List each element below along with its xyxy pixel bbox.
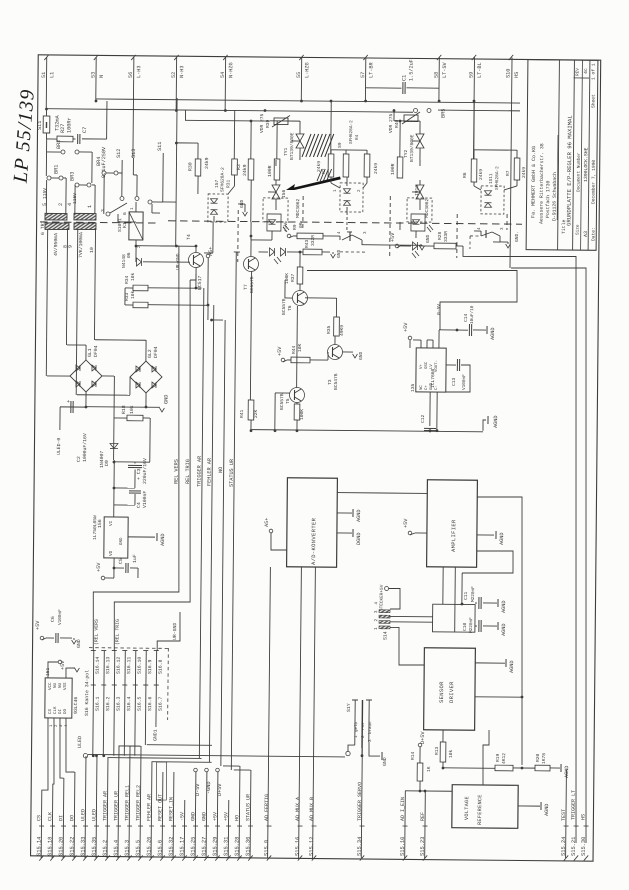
svg-text:GND: GND <box>382 757 388 766</box>
svg-text:S15.21: S15.21 <box>571 837 577 856</box>
jumper BR1 <box>47 176 51 180</box>
varistor VDR 275 R39 <box>270 120 300 122</box>
ULED node circle <box>83 753 87 757</box>
+5V supply R9 <box>287 234 291 238</box>
connector pin 58 LT-SV <box>438 57 440 100</box>
svg-text:NU: NU <box>54 682 58 688</box>
wire opto157 output to T4 <box>212 222 214 253</box>
svg-text:Postfach 1730: Postfach 1730 <box>545 180 551 218</box>
svg-text:CLK: CLK <box>54 706 58 714</box>
svg-text:24k9: 24k9 <box>478 169 484 180</box>
svg-text:10K: 10K <box>297 343 303 352</box>
svg-text:GND: GND <box>201 812 207 821</box>
connector pin S15.8 AD FERTIG <box>268 567 271 858</box>
isolation dashed branches <box>237 210 239 262</box>
svg-text:ULED-0: ULED-0 <box>56 438 62 455</box>
svg-text:S16.14: S16.14 <box>95 657 101 674</box>
svg-text:VCC: VCC <box>49 682 53 690</box>
svg-text:S15.14: S15.14 <box>36 837 42 856</box>
svg-text:CS: CS <box>49 708 53 714</box>
svg-text:LT-BL: LT-BL <box>477 62 483 78</box>
connector pin 51 L1 <box>45 57 47 108</box>
svg-text:SFH628A-2: SFH628A-2 <box>349 120 354 144</box>
wire amplifier right top <box>474 497 524 765</box>
dashed outline S16 right <box>167 648 170 720</box>
wire REL VERS bus <box>93 245 182 652</box>
svg-text:C10: C10 <box>462 622 468 631</box>
svg-text:GND: GND <box>430 382 434 390</box>
analog ground amplifier <box>477 534 494 536</box>
svg-text:54: 54 <box>220 72 226 78</box>
wire FEHLER AR horizontal <box>151 761 211 764</box>
svg-text:R7: R7 <box>505 170 511 176</box>
varistor VDR 275 R40 <box>419 121 421 131</box>
svg-text:7VK/100mA: 7VK/100mA <box>78 232 84 258</box>
svg-text:RESET_IN: RESET_IN <box>168 797 174 821</box>
ground GND T3 <box>343 351 353 353</box>
svg-text:NU: NU <box>59 682 63 688</box>
svg-text:56: 56 <box>128 72 134 78</box>
svg-text:R18: R18 <box>121 405 127 414</box>
svg-text:0K: 0K <box>298 222 304 228</box>
connector pin S15.29 +5V <box>216 772 219 858</box>
svg-text:220uF/16V: 220uF/16V <box>142 458 148 484</box>
svg-text:S10: S10 <box>506 69 512 78</box>
svg-text:S15.16: S15.16 <box>295 837 301 856</box>
IC 135 ICL7660 <box>416 348 446 392</box>
optocoupler I56 MOC3062 <box>263 198 288 222</box>
supply marks bottom <box>194 768 198 772</box>
svg-text:AD I_EIN: AD I_EIN <box>400 797 406 821</box>
svg-text:AGND: AGND <box>493 416 499 429</box>
resistor R18 10k <box>113 376 116 460</box>
connector pin S10 HS <box>510 57 512 267</box>
svg-text:1 of 1: 1 of 1 <box>591 63 597 80</box>
ground A/D pin2 <box>337 532 352 534</box>
svg-text:R35: R35 <box>326 325 332 334</box>
svg-text:AMPLIFIER: AMPLIFIER <box>451 519 457 552</box>
svg-text:24k9: 24k9 <box>316 161 322 172</box>
connector pin S15.5 TRIGGER REL2 <box>140 746 141 858</box>
svg-text:ULED: ULED <box>91 809 97 821</box>
wire STATUS UR horizontal <box>234 769 251 771</box>
svg-text:S15.25: S15.25 <box>190 837 196 856</box>
+5V supply A5+ <box>206 254 210 258</box>
svg-text:REV: REV <box>576 68 581 76</box>
svg-text:AGND: AGND <box>501 601 507 614</box>
wire UR-GND <box>157 612 180 651</box>
wire HS route <box>505 267 591 843</box>
svg-text:REF: REF <box>420 812 426 821</box>
capacitor C10 M220nF <box>478 620 480 632</box>
svg-text:BC557B: BC557B <box>281 298 287 315</box>
svg-text:C+: C+ <box>425 385 429 390</box>
connector pin S15.24 TEST <box>565 770 568 858</box>
svg-text:ULED: ULED <box>80 809 86 821</box>
svg-text:C7: C7 <box>82 127 88 133</box>
wire transformer to GL2 <box>76 229 78 394</box>
connector pin S15.17 -5V <box>183 800 186 858</box>
svg-text:BC557B: BC557B <box>279 393 285 410</box>
opto I56 input box <box>267 214 281 231</box>
svg-text:L1: L1 <box>49 72 55 78</box>
resistor R44 10K <box>281 358 285 362</box>
svg-text:C11: C11 <box>463 591 469 600</box>
wire HO horizontal <box>223 765 239 767</box>
svg-text:L-HZG: L-HZG <box>304 62 310 78</box>
pin pair S16.2 S16.13 <box>103 651 104 756</box>
transistor T4 BC517 <box>188 252 203 267</box>
svg-text:SI1: SI1 <box>37 121 43 130</box>
wire ULED horizontal <box>88 754 345 756</box>
svg-text:REFERENCE: REFERENCE <box>477 794 483 825</box>
svg-text:DF04: DF04 <box>93 345 99 357</box>
svg-text:VOLTAGE: VOLTAGE <box>464 796 470 820</box>
svg-text:NC: NC <box>420 385 424 390</box>
transistor T3 BC547B <box>327 344 342 359</box>
wire sensor driver right <box>475 696 522 698</box>
svg-text:ULED: ULED <box>77 736 83 748</box>
svg-text:S15.33: S15.33 <box>80 837 86 856</box>
svg-text:A/D-KONVERTER: A/D-KONVERTER <box>311 517 317 565</box>
svg-text:22K: 22K <box>253 409 259 418</box>
svg-text:100R: 100R <box>390 163 396 175</box>
resistor 24k9 right of S9 <box>366 150 368 154</box>
title block divider company/title <box>558 60 560 250</box>
capacitor C7 0.1uF/250V <box>77 134 79 144</box>
svg-text:S16.13: S16.13 <box>105 657 111 674</box>
wire ICL7660 top pins <box>420 340 422 348</box>
svg-text:V100nF: V100nF <box>58 609 63 625</box>
svg-text:+5V: +5V <box>35 620 41 630</box>
svg-text:VDR 275: VDR 275 <box>259 113 265 133</box>
connector pin S15.31 +5V <box>227 800 230 858</box>
svg-text:UR-GND: UR-GND <box>172 623 178 640</box>
svg-text:S9: S9 <box>337 142 343 148</box>
svg-text:I56: I56 <box>281 189 287 198</box>
resistor R4 24k9 <box>345 150 347 154</box>
svg-text:GL1: GL1 <box>87 348 93 357</box>
title block divider size/date <box>588 60 590 250</box>
wire block to sensor driver <box>461 573 463 604</box>
svg-text:AD MUX_B: AD MUX_B <box>309 797 315 821</box>
svg-text:+5V: +5V <box>60 660 66 670</box>
ground GND rail end <box>483 420 486 431</box>
svg-text:1: 1 <box>87 205 93 208</box>
svg-text:AD MUX_A: AD MUX_A <box>295 797 301 821</box>
svg-text:S15.32: S15.32 <box>168 837 174 856</box>
bridge rectifier GL1 DF04 <box>70 360 102 392</box>
svg-text:REL TRIG: REL TRIG <box>185 459 191 484</box>
svg-text:100Rr: 100Rr <box>66 117 72 133</box>
svg-text:C1: C1 <box>402 75 408 81</box>
connector pin S15.14 CS <box>40 790 43 858</box>
connector pin S15.33 ULED <box>84 756 87 858</box>
svg-text:S16.5: S16.5 <box>137 696 143 711</box>
svg-text:115V: 115V <box>72 193 78 204</box>
connector pin 55 L-HZG <box>300 57 302 100</box>
resistor R35 49K9 <box>305 297 336 299</box>
wire S14 pin1 +5V loop <box>385 586 389 590</box>
pin pair S16.6 S16.9 <box>144 651 147 745</box>
svg-text:5: 5 <box>42 203 48 206</box>
box C10/C11 filter block <box>432 604 475 632</box>
svg-text:N-H3: N-H3 <box>179 65 185 78</box>
+5V supply C6 <box>40 636 44 640</box>
svg-text:135: 135 <box>410 383 416 392</box>
svg-text:S16.10: S16.10 <box>137 657 143 674</box>
svg-text:AGND: AGND <box>160 534 166 547</box>
analog ground voltage ref <box>518 805 540 807</box>
svg-text:S15.2: S15.2 <box>102 840 108 856</box>
svg-text:V100nF: V100nF <box>142 491 148 508</box>
connector pin 52 N-H3 <box>175 57 178 110</box>
connector pin S15.4 TRIGGER UR <box>118 746 119 858</box>
wire mains bus L <box>96 99 520 103</box>
svg-text:BT139/800E: BT139/800E <box>409 134 415 162</box>
svg-text:S15.36: S15.36 <box>245 837 251 856</box>
svg-text:S15.24: S15.24 <box>561 837 567 856</box>
svg-text:4V/950mA: 4V/950mA <box>53 233 59 256</box>
svg-text:Sheet: Sheet <box>591 94 597 108</box>
ground GND S17 <box>369 742 380 756</box>
svg-text:10k: 10k <box>130 272 136 281</box>
analog ground C10 <box>497 622 499 630</box>
resistor R6 24k9 <box>473 158 475 160</box>
wire S14 pin2 <box>390 615 433 617</box>
ground GND R43 <box>331 254 336 258</box>
svg-text:6: 6 <box>122 212 128 215</box>
svg-text:HS: HS <box>581 814 587 820</box>
svg-text:M220nF: M220nF <box>469 617 474 633</box>
svg-text:100R: 100R <box>267 165 273 177</box>
svg-text:115V: 115V <box>42 188 48 199</box>
svg-text:S15.8: S15.8 <box>264 840 270 856</box>
svg-text:6 TR1: 6 TR1 <box>40 220 46 235</box>
wire REF input <box>405 790 452 792</box>
resistor R7 24k9 <box>474 149 517 151</box>
svg-text:S16.1: S16.1 <box>95 696 101 711</box>
connector pin S15.18 CLK <box>51 784 54 858</box>
svg-text:DO: DO <box>64 708 68 714</box>
svg-text:Size: Size <box>576 224 581 235</box>
svg-text:57: 57 <box>360 72 366 78</box>
svg-text:R40: R40 <box>394 119 400 128</box>
svg-text:S1091: S1091 <box>117 218 123 232</box>
svg-text:GND1: GND1 <box>152 729 158 741</box>
svg-text:1K: 1K <box>426 766 432 772</box>
svg-text:93LC46: 93LC46 <box>73 697 79 714</box>
svg-text:TRIGGER AR: TRIGGER AR <box>102 791 108 821</box>
svg-text:TRIGGER REL1: TRIGGER REL1 <box>124 785 130 821</box>
svg-text:D-5V: D-5V <box>195 783 201 796</box>
svg-text:DGND: DGND <box>356 533 362 546</box>
svg-text:-5V: -5V <box>179 812 185 821</box>
svg-text:CLK: CLK <box>47 812 53 821</box>
resistor R43 332R <box>303 249 322 255</box>
svg-text:GND: GND <box>120 537 124 545</box>
resistor R34 10k <box>125 287 133 289</box>
svg-text:S16.11: S16.11 <box>126 657 132 674</box>
svg-text:R41: R41 <box>239 409 245 418</box>
optocoupler S9 SFH628A-2 input <box>340 183 363 212</box>
wire S14 pin4 to sensor driver <box>390 627 425 665</box>
connector pin 56 L-H3 <box>132 57 135 157</box>
svg-text:S16.4: S16.4 <box>126 696 132 711</box>
svg-text:S15.10: S15.10 <box>400 837 406 856</box>
svg-text:GL2: GL2 <box>147 349 153 358</box>
+5V supply ICL7660 <box>408 336 412 340</box>
resistor R3 24k9 <box>250 121 252 159</box>
svg-text:N: N <box>99 75 105 78</box>
svg-text:55: 55 <box>296 72 302 78</box>
ground GND rectifier <box>86 406 160 409</box>
jumper BR3 <box>75 183 79 187</box>
svg-text:S15.17: S15.17 <box>179 837 185 856</box>
wire FEHLER AR bus <box>209 305 213 762</box>
svg-text:BR2: BR2 <box>56 140 62 149</box>
svg-text:TRIGGER LT: TRIGGER LT <box>571 790 577 820</box>
svg-text:LT-SV: LT-SV <box>442 61 448 78</box>
svg-text:GND.: GND. <box>514 231 520 242</box>
svg-text:L-H3: L-H3 <box>136 65 142 78</box>
svg-text:2: 2 <box>58 203 64 206</box>
svg-text:10uF/10: 10uF/10 <box>470 305 475 324</box>
wire 93LC46 DO <box>65 718 75 772</box>
wire amplifier right lower <box>462 551 513 574</box>
svg-text:VSS: VSS <box>64 682 68 690</box>
diode D6 N4148 <box>136 245 196 248</box>
resistor R30 24k9 <box>176 142 198 144</box>
connector pin S15.12 AD MUX_B <box>313 567 316 858</box>
svg-text:S16.8: S16.8 <box>158 659 164 674</box>
svg-text:(REL TRIG: (REL TRIG <box>114 619 120 645</box>
svg-text:S12: S12 <box>116 149 122 158</box>
svg-text:S15.5: S15.5 <box>135 840 141 856</box>
resistor R31 <box>186 119 270 122</box>
svg-text:R27: R27 <box>60 124 66 133</box>
wire REL TRIG bus <box>114 279 193 651</box>
svg-text:R13: R13 <box>434 746 440 755</box>
svg-text:+5V: +5V <box>277 346 283 356</box>
svg-text:4K12: 4K12 <box>501 753 507 764</box>
svg-text:AGND: AGND <box>564 766 570 779</box>
ULED node S17 <box>348 745 355 751</box>
svg-text:24k9: 24k9 <box>373 163 379 174</box>
svg-text:+5V: +5V <box>283 222 289 232</box>
svg-text:1390LOCK.SHE: 1390LOCK.SHE <box>583 147 589 182</box>
opto S11 output transistor <box>481 232 492 236</box>
svg-text:R30: R30 <box>187 162 193 171</box>
resistor 100R group1 <box>276 121 278 159</box>
analog ground C11 <box>497 599 499 607</box>
svg-text:S13: S13 <box>131 149 137 158</box>
svg-text:S15.31: S15.31 <box>223 837 229 856</box>
svg-text:1000uF/16V: 1000uF/16V <box>82 433 88 462</box>
IC block AMPLIFIER <box>427 480 478 567</box>
pin pair S16.1 S16.14 <box>93 651 94 756</box>
svg-text:BC547B: BC547B <box>333 373 339 390</box>
svg-text:S15.20: S15.20 <box>58 837 64 856</box>
svg-text:S16.2: S16.2 <box>105 696 111 711</box>
svg-text:1L750L05W: 1L750L05W <box>92 515 98 540</box>
resistor R36 100K <box>296 403 298 404</box>
connector pin S15.3 TRIGGER REL1 <box>129 746 130 858</box>
svg-text:10: 10 <box>89 247 95 253</box>
svg-text:AD FERTIG: AD FERTIG <box>264 794 270 821</box>
svg-text:BT139/800E: BT139/800E <box>289 132 295 160</box>
svg-text:A5+: A5+ <box>208 247 214 256</box>
svg-text:3: 3 <box>100 209 106 212</box>
svg-text:+5V: +5V <box>403 518 409 528</box>
svg-text:S15.29: S15.29 <box>212 837 218 856</box>
svg-text:24k9: 24k9 <box>242 164 248 176</box>
svg-text:GRUNDPLATTE E/P-REGLER 96 MAXI: GRUNDPLATTE E/P-REGLER 96 MAXIMAL <box>566 115 574 226</box>
svg-text:FEHLER AR: FEHLER AR <box>206 458 212 486</box>
svg-text:V100nF: V100nF <box>462 374 467 390</box>
svg-text:T4: T4 <box>186 234 192 240</box>
svg-text:58: 58 <box>434 72 440 78</box>
pin pair S16.3 S16.12 <box>114 651 115 756</box>
svg-text:R4: R4 <box>355 134 360 140</box>
svg-text:R44: R44 <box>291 345 297 354</box>
resistor R28 333R <box>434 243 456 249</box>
connector pin 57 LT-BR <box>364 57 366 100</box>
svg-text:BR4: BR4 <box>96 157 102 166</box>
analog ground C14 <box>486 326 488 334</box>
capacitor C3 220uF/16V <box>114 461 150 463</box>
svg-text:24k9: 24k9 <box>204 157 210 169</box>
svg-text:Aeussere Ritterbacherstr. 38: Aeussere Ritterbacherstr. 38 <box>539 143 546 224</box>
triac gate symbol at MOC 2 <box>416 185 424 192</box>
svg-text:S15.30: S15.30 <box>581 837 587 856</box>
svg-text:+5V: +5V <box>212 812 218 821</box>
diode D9 1N4007 <box>110 443 118 448</box>
transformer TR1 secondary windings <box>45 223 69 230</box>
svg-text:BC557B: BC557B <box>249 276 255 293</box>
svg-text:DI: DI <box>58 815 64 821</box>
wire amplifier bottom caps <box>442 567 444 604</box>
connector pin S15.32 RESET_IN <box>172 772 175 858</box>
capacitor C14 10uF/10 <box>468 324 470 336</box>
svg-text:+5V: +5V <box>223 812 229 821</box>
wire GL1 output <box>85 392 87 407</box>
svg-text:333R: 333R <box>443 231 449 242</box>
wire select to relay <box>163 201 176 203</box>
svg-text:BR1: BR1 <box>53 165 59 174</box>
svg-text:49K9: 49K9 <box>339 325 345 336</box>
svg-text:AGND: AGND <box>544 804 550 817</box>
pin pair S16.7 S16.8 <box>155 651 158 727</box>
svg-text:VI: VI <box>109 520 114 526</box>
svg-text:S1Y: S1Y <box>346 703 352 712</box>
svg-text:AGND: AGND <box>509 661 515 674</box>
svg-text:R19: R19 <box>495 753 501 762</box>
connector pin 53 N <box>95 57 97 100</box>
jumper BR2 <box>45 139 47 176</box>
bridge rectifier GL2 DF04 <box>130 361 162 393</box>
svg-text:S14: S14 <box>383 631 389 640</box>
svg-text:REL VERS: REL VERS <box>173 459 179 484</box>
wire TRIGGER AR horizontal <box>107 757 201 760</box>
svg-text:(REL VERS: (REL VERS <box>93 619 99 645</box>
diode LED indicator right <box>412 242 417 250</box>
svg-text:S15.3: S15.3 <box>124 840 130 856</box>
svg-text:C14: C14 <box>463 313 469 322</box>
svg-text:TRIGGER AR: TRIGGER AR <box>196 456 202 487</box>
capacitor C2 1000uF/16V <box>60 406 86 408</box>
svg-text:S11: S11 <box>157 142 163 151</box>
